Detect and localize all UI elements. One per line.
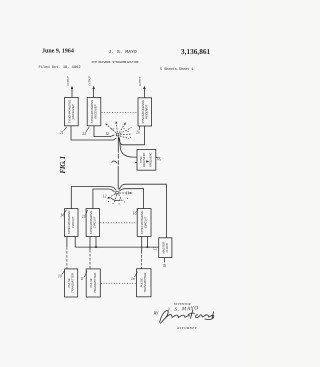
junction 12 starburst	[105, 121, 132, 138]
junction dots on clock bus	[95, 246, 148, 248]
wires	[67, 126, 166, 269]
svg-text:FIG. 1: FIG. 1	[58, 156, 67, 173]
sync circuit 14 right pin to clock bus	[74, 237, 76, 248]
svg-text:ATTORNEY: ATTORNEY	[176, 326, 198, 330]
svg-text:PCM NETWORK SYNCHRONIZATION: PCM NETWORK SYNCHRONIZATION	[92, 61, 139, 64]
svg-text:17: 17	[153, 247, 157, 251]
svg-text:OUTPUT: OUTPUT	[67, 76, 70, 86]
svg-text:1n: 1n	[131, 277, 135, 281]
wire receiver 21 down to junction 12	[71, 126, 116, 140]
svg-text:22: 22	[82, 132, 86, 136]
svg-text:5 Sheets-Sheet 1: 5 Sheets-Sheet 1	[160, 67, 194, 72]
wire junction 12 to block 24	[120, 138, 138, 158]
svg-text:24: 24	[157, 157, 161, 161]
svg-text:3,136,861: 3,136,861	[181, 47, 211, 56]
wire receiver 22 down to junction 12	[94, 126, 114, 137]
pulse transmitter block 1n	[137, 269, 151, 297]
svg-text:14: 14	[60, 213, 64, 217]
svg-text:13: 13	[126, 192, 130, 196]
svg-text:10: 10	[58, 274, 62, 278]
output arrow of receiver 22	[93, 87, 95, 97]
svg-text:June 9, 1964: June 9, 1964	[42, 49, 74, 55]
output arrow of receiver 2n	[143, 87, 145, 98]
synchronizing receiver block 2n	[138, 98, 152, 126]
scattered dots below junction 13	[108, 198, 128, 204]
output arrow of receiver 21	[71, 87, 73, 97]
wire receiver 2n down to junction 12	[119, 126, 145, 145]
stub into block 24 lower	[135, 162, 137, 164]
synchronizing receiver block 21	[65, 98, 79, 126]
master clock bottom stub 18	[164, 258, 166, 263]
svg-text:21: 21	[60, 131, 64, 135]
small arrow mark inside block 24	[146, 160, 149, 162]
svg-text:OUTPUT: OUTPUT	[88, 76, 91, 86]
wire junction 13 to sync circuit 14	[71, 187, 116, 209]
junction 13 starburst	[107, 161, 132, 204]
sync circuit 16 right pin to clock bus	[146, 237, 148, 248]
signature area	[154, 302, 214, 330]
synchronizing receiver block 22	[87, 98, 101, 126]
stub under receiver 2n	[139, 126, 141, 129]
svg-text:12: 12	[103, 194, 107, 198]
svg-text:13: 13	[111, 127, 115, 131]
curved arrow below junction 13	[111, 198, 121, 201]
block lettering	[67, 99, 169, 293]
svg-text:Filed Oct. 18, 1962: Filed Oct. 18, 1962	[39, 65, 81, 70]
svg-text:12: 12	[105, 132, 109, 136]
pulse transmitter block 10	[65, 269, 78, 297]
master clock block 17	[159, 238, 172, 258]
clock bus line	[75, 246, 159, 248]
dotted line between sync circuits 15 and 16	[100, 222, 136, 224]
small hook on path above junction 13	[112, 161, 118, 164]
synchronizing circuit block 14	[65, 209, 79, 237]
sync circuit 14 left pin down	[66, 237, 68, 248]
wire junction 13 to sync circuit 15	[93, 189, 115, 209]
path junction 12 to junction 13	[117, 137, 119, 149]
dotted continuation lines	[100, 113, 137, 284]
sync circuit 15 right pin to clock bus	[95, 237, 97, 248]
sync circuit 15 left pin down	[89, 237, 91, 251]
paper background	[0, 0, 250, 367]
dotted line between pulse transmitters 11 and 1n	[101, 282, 136, 284]
wire junction 13 to master clock	[119, 184, 167, 238]
svg-text:OUTPUT: OUTPUT	[139, 76, 142, 86]
svg-text:J. S. MAYO: J. S. MAYO	[109, 49, 137, 55]
svg-text:2n: 2n	[136, 131, 140, 135]
svg-text:18: 18	[163, 264, 167, 268]
timing recovery block 24	[137, 150, 156, 171]
svg-text:MASTERCLOCK: MASTERCLOCK	[162, 242, 170, 254]
synchronizing circuit block 16	[137, 209, 151, 237]
synchronizing circuit block 15	[86, 209, 100, 237]
stub and lead of label 24	[156, 157, 158, 158]
svg-text:BY: BY	[154, 311, 159, 316]
svg-text:15: 15	[82, 215, 86, 219]
svg-text:16: 16	[133, 211, 137, 215]
signature	[160, 310, 214, 324]
reference numerals	[58, 127, 167, 281]
sync circuit 16 left pin down	[141, 237, 143, 252]
svg-text:11: 11	[80, 277, 84, 281]
wire junction 13 to sync circuit 16	[119, 189, 143, 209]
pulse transmitter block 11	[86, 269, 100, 297]
output arrows above receivers	[71, 86, 146, 98]
dotted line between receivers 22 and 2n	[102, 112, 138, 114]
